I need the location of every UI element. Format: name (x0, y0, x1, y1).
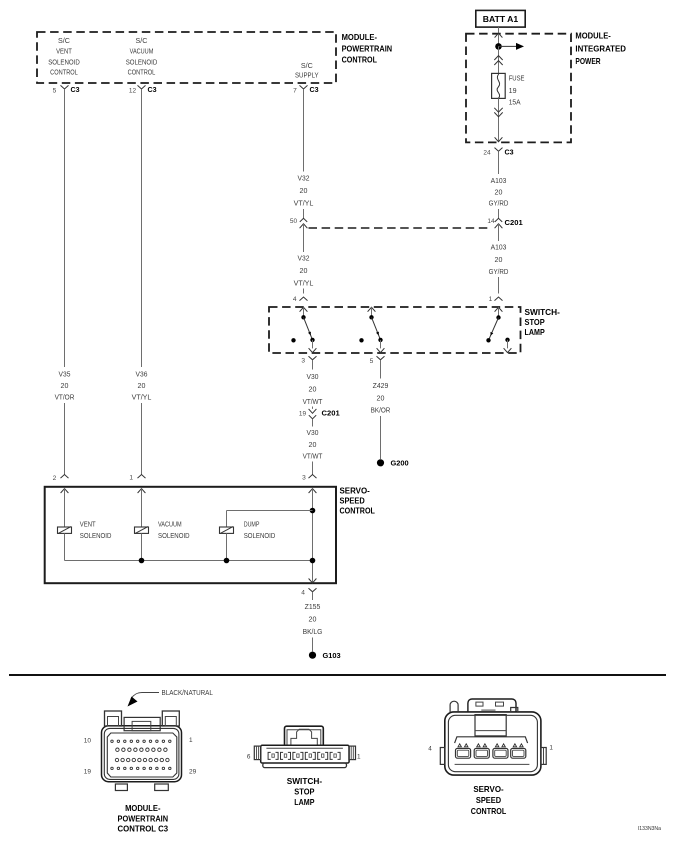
svg-text:I133N3Na: I133N3Na (638, 826, 662, 832)
svg-text:SOLENOID: SOLENOID (126, 59, 158, 66)
svg-text:24: 24 (483, 150, 491, 157)
svg-text:INTEGRATED: INTEGRATED (575, 44, 626, 54)
svg-text:SERVO-: SERVO- (473, 784, 503, 794)
svg-text:LAMP: LAMP (525, 327, 546, 337)
svg-text:G200: G200 (391, 458, 409, 467)
stop lamp switch 3 (mirrored) (495, 307, 503, 311)
wire C201-19 to label V30 lower (312, 425, 314, 427)
switch stop lamp box (dashed) (269, 307, 521, 353)
battery feed box BATT A1 (476, 10, 525, 27)
svg-text:CONTROL: CONTROL (50, 70, 78, 77)
dump solenoid (220, 527, 234, 533)
svg-text:BATT A1: BATT A1 (483, 14, 519, 24)
svg-text:SPEED: SPEED (476, 795, 501, 805)
svg-text:CONTROL: CONTROL (342, 55, 377, 65)
wire dump to bus (226, 533, 228, 560)
svg-text:CONTROL: CONTROL (340, 506, 375, 516)
svg-text:VENT: VENT (80, 521, 96, 528)
arrow into servo supply (309, 489, 317, 493)
svg-text:Z155: Z155 (305, 604, 321, 611)
svg-text:SUPPLY: SUPPLY (295, 73, 319, 80)
svg-text:4: 4 (301, 590, 305, 597)
stop lamp switch 1 (vent path) (300, 307, 308, 311)
svg-text:20: 20 (495, 189, 503, 196)
wire pin3 to label V30 (312, 360, 314, 370)
svg-text:LAMP: LAMP (294, 797, 315, 807)
vacuum solenoid (135, 527, 149, 533)
svg-text:POWERTRAIN: POWERTRAIN (118, 814, 169, 824)
connector servo pin 3 (309, 475, 317, 479)
PCM C3 connector cavity (107, 733, 177, 777)
svg-text:DUMP: DUMP (244, 521, 260, 528)
svg-text:C3: C3 (505, 148, 514, 157)
svg-text:CONTROL: CONTROL (128, 70, 156, 77)
switch 3 output arrow (507, 340, 509, 349)
svg-text:MODULE-: MODULE- (125, 803, 161, 813)
PCM C3 connector body (102, 726, 182, 782)
fuse element (497, 74, 500, 98)
wire vacuum control lower (141, 403, 143, 475)
PCM C3 bottom tabs (115, 784, 127, 791)
svg-text:MODULE-: MODULE- (575, 30, 611, 40)
node bus supply (310, 558, 316, 564)
svg-text:SOLENOID: SOLENOID (80, 533, 112, 540)
inline connector C201 pin 50 (300, 218, 307, 222)
PCM C3 pin field (111, 740, 113, 742)
wire junction to fuse (498, 46, 500, 73)
svg-text:VACUUM: VACUUM (158, 521, 182, 528)
svg-text:C3: C3 (71, 85, 80, 94)
svg-text:C3: C3 (310, 85, 319, 94)
svg-text:15A: 15A (509, 100, 521, 107)
svg-text:20: 20 (300, 268, 308, 275)
svg-text:MODULE-: MODULE- (342, 32, 378, 42)
stop lamp connector body (285, 726, 324, 745)
wire vent control lower (64, 403, 66, 475)
wire vacuum inside (141, 489, 143, 527)
connector switch pin 1 (495, 297, 503, 301)
svg-text:BK/LG: BK/LG (303, 629, 323, 636)
C201 dashed line (309, 227, 492, 229)
svg-text:3: 3 (301, 358, 305, 365)
svg-text:V36: V36 (136, 371, 148, 378)
svg-text:19: 19 (84, 768, 92, 775)
svg-text:V30: V30 (307, 374, 319, 381)
svg-text:29: 29 (189, 768, 197, 775)
svg-text:1: 1 (357, 754, 361, 761)
wire to ground G103 (312, 638, 314, 652)
svg-text:2: 2 (53, 475, 57, 482)
servo connector body (445, 712, 541, 775)
connector switch pin 5 (377, 356, 385, 360)
chevron up pair (494, 56, 502, 60)
svg-text:STOP: STOP (525, 317, 546, 327)
svg-text:10: 10 (84, 738, 92, 745)
svg-text:6: 6 (247, 754, 251, 761)
connector C3 pin 12 (138, 85, 146, 89)
servo connector terminals (456, 748, 471, 758)
wire vacuum to bus (141, 533, 143, 560)
wire label to C201 pin50 (303, 209, 305, 218)
svg-text:GY/RD: GY/RD (489, 269, 509, 276)
arrow out IPM bottom (495, 137, 503, 141)
inline connector C201 pin 14 (495, 218, 502, 222)
svg-text:SOLENOID: SOLENOID (244, 533, 276, 540)
svg-text:BK/OR: BK/OR (371, 408, 391, 415)
connector C3 pin 24 (495, 148, 503, 152)
wire C201 to label A103 lower (498, 224, 500, 241)
wire C201-50 to label V32 lower (303, 224, 305, 252)
svg-text:VT/WT: VT/WT (303, 453, 323, 460)
wire vent inside (64, 489, 66, 527)
svg-text:20: 20 (309, 386, 317, 393)
ground G103 (309, 652, 316, 659)
inline connector C201 pin 19 (312, 407, 314, 409)
ground bus wire (65, 560, 313, 562)
wire label to C201 (498, 209, 500, 218)
svg-text:3: 3 (302, 475, 306, 482)
svg-text:20: 20 (309, 442, 317, 449)
svg-text:VT/WT: VT/WT (303, 399, 323, 406)
wire to switch pin 4 (303, 289, 305, 294)
svg-text:5: 5 (53, 87, 57, 94)
svg-text:VT/OR: VT/OR (55, 395, 75, 402)
svg-text:A103: A103 (491, 178, 507, 185)
section divider line (9, 674, 666, 676)
module powertrain control box (dashed) (37, 32, 336, 83)
wire to switch pin 1 (498, 277, 500, 294)
wire pin7 to label V32 (303, 89, 305, 172)
svg-text:1: 1 (489, 296, 493, 303)
arrow into servo vacuum (138, 489, 146, 493)
svg-text:SERVO-: SERVO- (340, 486, 370, 496)
svg-text:1: 1 (129, 474, 133, 481)
wire vent to bus (64, 533, 66, 560)
wire fuse to IPM bottom (498, 98, 500, 141)
connector servo pin 1 (138, 475, 146, 479)
svg-text:50: 50 (290, 218, 298, 225)
wire C3 to label A103 (498, 151, 500, 174)
svg-text:7: 7 (293, 88, 297, 95)
wire supply inside (312, 489, 314, 584)
svg-text:19: 19 (509, 88, 517, 95)
svg-text:GY/RD: GY/RD (489, 201, 509, 208)
connector switch pin 4 (300, 297, 308, 301)
svg-text:CONTROL: CONTROL (471, 806, 506, 816)
servo speed control box (45, 487, 336, 583)
switch 2 output arrow (380, 340, 382, 349)
svg-text:V35: V35 (59, 371, 71, 378)
wire vacuum control upper (141, 89, 143, 367)
stop lamp connector terminals (268, 752, 271, 759)
node bus vacuum (139, 558, 145, 564)
wire to servo pin 3 (312, 462, 314, 475)
svg-text:S/C: S/C (136, 38, 148, 45)
svg-text:C201: C201 (505, 218, 524, 227)
node supply branch (310, 508, 316, 514)
connector switch pin 3 (309, 356, 317, 360)
feed arrow to other circuits (499, 45, 518, 47)
svg-text:14: 14 (487, 218, 495, 225)
svg-text:S/C: S/C (301, 63, 313, 70)
switch 1 output arrow (312, 340, 314, 349)
svg-text:20: 20 (495, 257, 503, 264)
svg-text:4: 4 (428, 746, 432, 753)
svg-text:5: 5 (370, 358, 374, 365)
svg-text:SWITCH-: SWITCH- (287, 776, 323, 786)
wire vent control upper (64, 89, 66, 367)
wire to ground G200 (380, 416, 382, 459)
connector servo pin 4 (309, 588, 317, 592)
svg-text:POWER: POWER (575, 56, 600, 66)
svg-text:20: 20 (138, 383, 146, 390)
svg-text:C201: C201 (322, 408, 341, 417)
svg-text:SOLENOID: SOLENOID (48, 59, 80, 66)
svg-text:V32: V32 (298, 255, 310, 262)
svg-text:STOP: STOP (294, 787, 315, 797)
svg-text:A103: A103 (491, 244, 507, 251)
svg-text:4: 4 (293, 296, 297, 303)
svg-text:CONTROL C3: CONTROL C3 (118, 824, 169, 834)
ground G200 (377, 459, 384, 466)
svg-text:S/C: S/C (58, 38, 70, 45)
svg-text:V32: V32 (298, 176, 310, 183)
wire pin4 to label Z155 (312, 592, 314, 600)
svg-text:12: 12 (129, 87, 137, 94)
connector servo pin 2 (61, 475, 69, 479)
vent solenoid (58, 527, 72, 533)
stop lamp switch 2 (368, 307, 376, 311)
svg-text:1: 1 (549, 745, 553, 752)
svg-text:VT/YL: VT/YL (132, 395, 152, 402)
wire branch to dump (227, 510, 313, 512)
svg-text:19: 19 (299, 411, 307, 418)
node bus dump (224, 558, 230, 564)
node battery feed junction (495, 43, 502, 50)
svg-text:1: 1 (189, 737, 193, 744)
svg-text:VACUUM: VACUUM (130, 49, 154, 56)
svg-text:BLACK/NATURAL: BLACK/NATURAL (162, 690, 213, 697)
svg-text:FUSE: FUSE (509, 76, 525, 83)
svg-text:POWERTRAIN: POWERTRAIN (342, 43, 393, 53)
arrow out servo bottom (309, 579, 317, 583)
svg-text:VT/YL: VT/YL (294, 200, 314, 207)
svg-text:SPEED: SPEED (340, 496, 365, 506)
svg-text:20: 20 (300, 188, 308, 195)
module integrated power box (dashed) (466, 34, 571, 143)
chevron down pair (494, 108, 502, 112)
svg-text:G103: G103 (323, 651, 341, 660)
svg-text:SOLENOID: SOLENOID (158, 533, 190, 540)
svg-text:SWITCH-: SWITCH- (525, 307, 561, 317)
svg-text:C3: C3 (148, 85, 157, 94)
fuse 19 box (492, 73, 506, 98)
svg-text:20: 20 (309, 616, 317, 623)
svg-text:VT/YL: VT/YL (294, 280, 314, 287)
wire pin5 to label Z429 (380, 360, 382, 379)
svg-text:V30: V30 (307, 430, 319, 437)
connector C3 pin 5 (61, 85, 69, 89)
svg-text:Z429: Z429 (373, 383, 389, 390)
wire batt to junction (498, 27, 500, 46)
arrow into servo vent (61, 489, 69, 493)
arrow into IPM top (495, 33, 503, 37)
svg-text:VENT: VENT (56, 49, 72, 56)
svg-text:20: 20 (61, 383, 69, 390)
svg-text:20: 20 (377, 395, 385, 402)
connector C3 pin 7 (300, 85, 308, 89)
